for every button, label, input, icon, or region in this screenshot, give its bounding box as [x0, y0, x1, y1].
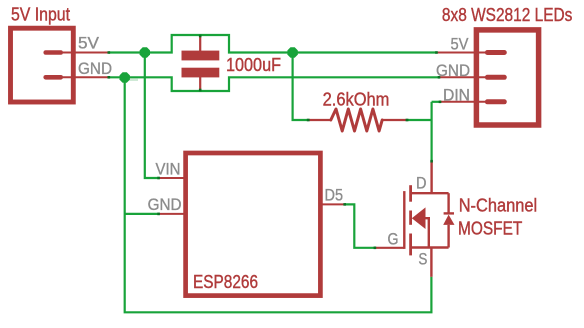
svg-text:VIN: VIN: [156, 160, 181, 178]
terminal dot ESP GND wire end: [157, 213, 160, 216]
wire D5 to MOSFET gate: [345, 204, 375, 247]
MOSFET Q1 source lead: [430, 248, 432, 277]
MOSFET Q1 source rail: [411, 246, 449, 248]
pin stub GND of U1: [159, 213, 188, 215]
svg-text:8x8 WS2812 LEDs: 8x8 WS2812 LEDs: [442, 5, 573, 25]
pin bar GND of J2: [485, 75, 507, 80]
pin bar 5V of J2: [485, 50, 507, 55]
capacitor C1 bottom plate: [182, 68, 220, 78]
terminal dot VIN wire end: [157, 177, 160, 180]
svg-text:N-Channel: N-Channel: [459, 196, 538, 216]
wire 5V junction down to resistor: [293, 53, 309, 121]
terminal dot MOSFET drain wire end: [430, 160, 433, 163]
resistor R1 zigzag: [331, 109, 382, 131]
terminal dot resistor right: [406, 119, 409, 122]
terminal dot gate wire end: [374, 247, 377, 250]
svg-text:DIN: DIN: [443, 87, 470, 105]
wire DIN node to LED DIN pin: [432, 101, 440, 103]
MOSFET Q1 gate lead: [375, 247, 404, 249]
terminal dot resistor left: [307, 119, 310, 122]
wire GND net: J1 to cap loop bottom to LED side: [109, 77, 439, 91]
pin lead 5V of J2: [437, 52, 491, 54]
svg-text:G: G: [388, 231, 399, 249]
pin bar GND of J1: [43, 75, 63, 80]
MOSFET Q1 gate bar: [403, 191, 405, 249]
MOSFET Q1 body diode cathode bar: [444, 212, 454, 214]
terminal dot J1 GND wire end: [108, 76, 111, 79]
svg-text:ESP8266: ESP8266: [193, 272, 258, 292]
capacitor C1 bottom lead: [199, 77, 201, 91]
pin bar DIN of J2: [485, 99, 507, 104]
wire 5V to ESP8266 VIN: [145, 53, 159, 179]
svg-text:GND: GND: [148, 196, 182, 214]
svg-text:D: D: [416, 174, 427, 192]
wire DIN node vertical: [431, 102, 433, 161]
svg-text:2.6kOhm: 2.6kOhm: [323, 89, 390, 109]
MOSFET Q1 drain rail: [411, 192, 449, 194]
wire GND vertical down left side and bottom rail to MOSFET source: [125, 77, 432, 312]
junction dot GND net: [120, 72, 130, 82]
svg-text:5V: 5V: [451, 36, 469, 54]
terminal dot cap bottom: [199, 89, 202, 92]
MOSFET Q1 channel top segment: [409, 185, 412, 202]
wire GND tap to ESP8266 GND pin: [125, 213, 159, 215]
MOSFET Q1 body diode branch bottom: [447, 225, 449, 248]
junction dot 5V-resistor net: [287, 47, 297, 57]
MOSFET Q1 body diode triangle: [443, 215, 454, 225]
pin stub D5 of U1: [319, 203, 345, 205]
svg-text:D5: D5: [325, 187, 344, 205]
svg-text:MOSFET: MOSFET: [458, 219, 522, 239]
connector J1 5V Input body: [11, 28, 74, 102]
MOSFET Q1 body arrow: [412, 207, 426, 229]
pin lead DIN of J2: [440, 101, 490, 103]
pin stub VIN of U1: [159, 177, 188, 179]
capacitor C1 top plate: [182, 51, 220, 61]
MOSFET Q1 channel bottom segment: [409, 234, 412, 256]
svg-text:S: S: [418, 251, 427, 269]
svg-text:1000uF: 1000uF: [226, 55, 281, 75]
svg-text:5V: 5V: [78, 35, 99, 53]
pin lead GND of J2: [439, 76, 490, 78]
MOSFET Q1 drain lead: [430, 161, 432, 193]
pin lead GND of J1: [63, 76, 109, 78]
resistor R1 right lead: [382, 119, 407, 121]
terminal dot LED 5V wire end: [435, 51, 438, 54]
terminal dot D5 wire start: [343, 203, 346, 206]
svg-text:GND: GND: [436, 62, 470, 80]
connector J2 8x8 WS2812 LEDs body: [476, 30, 538, 125]
MOSFET Q1 channel middle segment: [409, 211, 412, 225]
wire resistor to DIN node: [407, 119, 432, 121]
MOSFET Q1 body diode branch top: [447, 193, 449, 212]
svg-text:GND: GND: [78, 60, 112, 78]
capacitor C1 top lead: [199, 35, 201, 51]
MOSFET Q1 arrow tail: [425, 218, 429, 247]
terminal dot cap top: [199, 35, 202, 38]
terminal dot LED GND wire end: [438, 76, 441, 79]
terminal dot J1 5V wire end: [108, 51, 111, 54]
pale highlight on GND wire segment: [130, 78, 139, 81]
svg-text:5V Input: 5V Input: [11, 5, 70, 25]
pin bar 5V of J1: [43, 50, 63, 55]
junction dot 5V net: [140, 47, 150, 57]
ESP8266 U1 body: [186, 153, 321, 296]
wire 5V net: J1 to cap loop top to LED side: [109, 35, 437, 53]
resistor R1 left lead: [309, 119, 331, 121]
pin lead 5V of J1: [63, 52, 109, 54]
terminal dot LED DIN wire end: [439, 101, 442, 104]
